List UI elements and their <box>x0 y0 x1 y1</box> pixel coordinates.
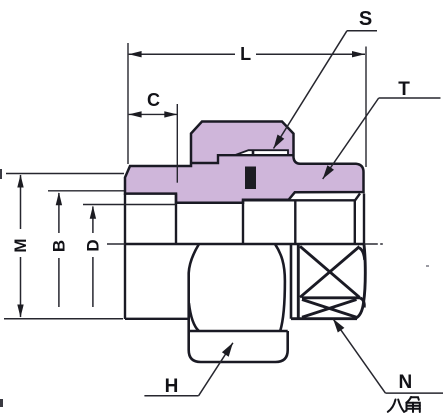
svg-text:D: D <box>84 239 103 251</box>
svg-text:H: H <box>165 376 179 397</box>
leader S arrowhead <box>274 135 285 149</box>
svg-text:B: B <box>50 240 69 252</box>
svg-text:C: C <box>147 90 160 110</box>
leader T arrowhead <box>323 165 334 179</box>
dimension D line <box>92 207 94 308</box>
body top edge on centre line <box>125 243 364 245</box>
leader H <box>144 343 233 396</box>
seal / gasket (dark section) <box>245 167 256 190</box>
internal step line of nut <box>191 155 294 163</box>
dimension C extension line <box>176 104 178 183</box>
dimension D arrowhead <box>90 206 96 219</box>
leader T <box>323 98 441 179</box>
slot between nut and tail piece (white wedge) <box>235 150 288 155</box>
dimension L extension line right <box>365 47 367 168</box>
svg-text:M: M <box>11 238 30 252</box>
svg-text:S: S <box>359 8 372 30</box>
scan edge artifacts <box>0 169 429 407</box>
dimension L line <box>129 53 365 55</box>
centre line <box>107 243 383 245</box>
octagon body with flats (lower right, X marks) <box>291 244 365 319</box>
octagon body top chamfer (box above centre line) <box>243 194 364 245</box>
dimension B arrowhead <box>56 192 62 205</box>
dimension C arrowheads <box>129 111 178 117</box>
svg-text:T: T <box>398 79 410 100</box>
union nut body (purple cross-section) <box>125 122 364 203</box>
dimension D extension line <box>83 204 176 206</box>
dimension M line <box>20 175 22 317</box>
left pipe (tail) edges <box>125 194 189 319</box>
leader N <box>333 319 443 393</box>
dimension B line <box>58 193 60 307</box>
dimension L arrowheads <box>129 51 365 57</box>
thread tick in slot <box>252 150 255 156</box>
leader N arrowhead <box>333 319 344 333</box>
label 八角 (drawn strokes) <box>388 397 420 412</box>
svg-text:N: N <box>399 372 413 393</box>
svg-text:L: L <box>240 44 251 64</box>
dimension B extension line <box>48 190 124 192</box>
male fitting end face <box>242 200 244 244</box>
dimension M arrowheads <box>17 175 23 318</box>
leader H arrowhead <box>222 343 233 357</box>
dimension M extension lines <box>4 174 124 319</box>
nut tail bore edge <box>175 194 177 244</box>
hex nut (lower exterior view) <box>189 244 291 362</box>
leader S <box>274 31 378 149</box>
dimension L extension line left <box>127 43 129 164</box>
dimension C line <box>129 113 178 115</box>
